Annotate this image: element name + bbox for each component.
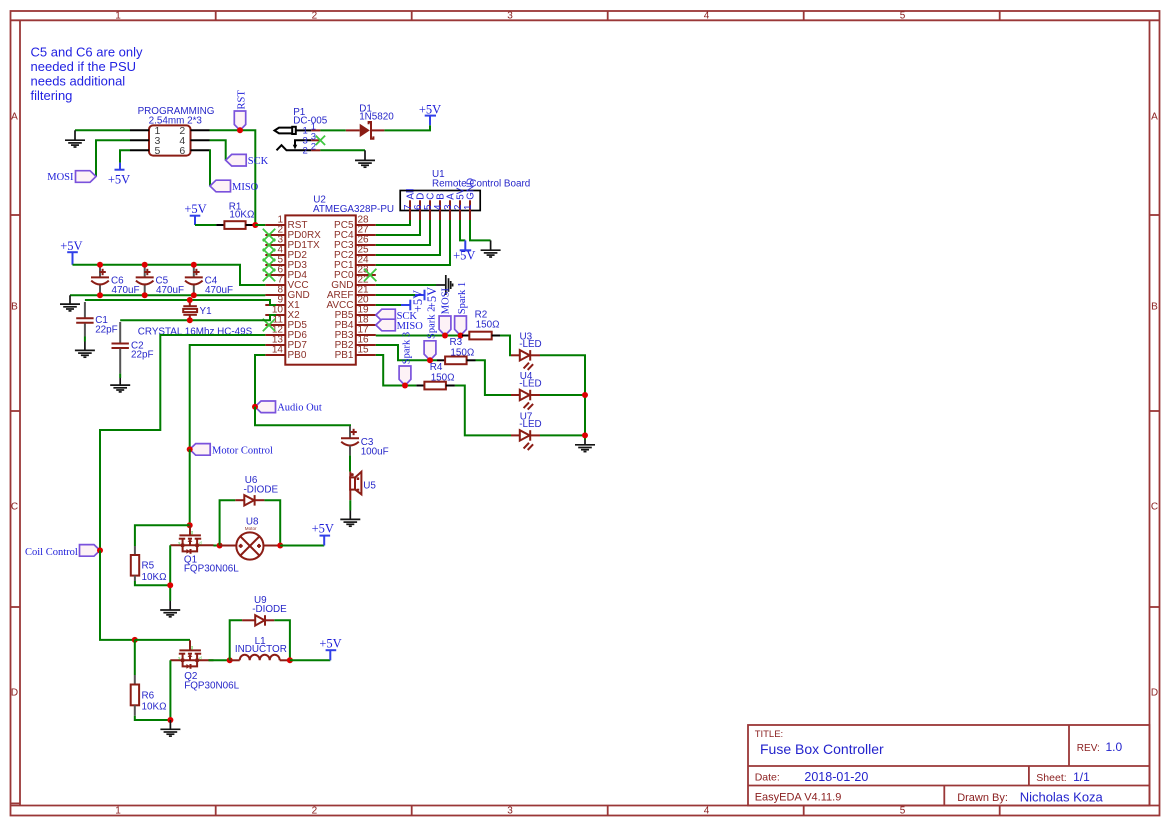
power +5V (header pin5, downward) [108,163,130,187]
svg-text:Remote Control Board: Remote Control Board [432,178,530,189]
wire U1 pin7 to U2 pin28 [376,220,410,225]
junction Coil Control flag [97,547,103,553]
wire P1 pin2 to ground [320,149,365,151]
connector P1 DC-005 barrel jack [275,107,328,157]
motor U8 [220,517,281,560]
svg-text:4: 4 [704,806,710,817]
U1 pin 2 5V [453,187,467,220]
svg-text:22pF: 22pF [95,324,118,335]
svg-text:R6: R6 [142,690,155,701]
transistor Q1 FQP30N06L [170,525,213,554]
pin 3 [311,139,320,141]
pin 3 stub [130,139,149,141]
pin 5 stub [130,149,149,151]
speaker U5 [350,472,376,501]
net flag MOSI (Spark1 row, downward) [439,287,452,335]
crystal Y1 [183,300,212,320]
net flag SCK (header) [226,154,269,167]
wire U2 pin22 GND [376,284,436,286]
wire R6-junction to Q2 gate [135,639,190,641]
wire Q1 gate node to R5 [135,525,190,546]
svg-text:470uF: 470uF [205,285,233,296]
svg-text:RST: RST [236,90,247,110]
wire C2 to ground [119,374,121,378]
U2 pin 23 PC0 [334,265,376,282]
U2 pin 21 AREF [327,285,376,302]
title block [748,725,1150,806]
svg-text:+5V: +5V [411,290,425,312]
wire C1 to ground [84,337,86,342]
svg-text:5: 5 [900,806,906,817]
svg-text:150Ω: 150Ω [476,320,500,331]
svg-text:MOSI: MOSI [47,172,74,183]
svg-text:3: 3 [507,11,513,22]
U2 pin 26 PC3 [334,235,376,252]
svg-text:TITLE:: TITLE: [755,729,784,740]
junction U6/motor left [217,543,223,549]
power +5V (after D1) [419,102,441,125]
capacitor C2 22pF [112,322,154,374]
junction L1 right [287,657,293,663]
junction R6 top [132,637,138,643]
no-connect X U2 left pin at y255 [263,249,275,261]
U2 pin 27 PC4 [334,225,376,242]
svg-text:FQP30N06L: FQP30N06L [184,681,239,692]
power +5V (AVCC, rotated right) [401,290,425,312]
junction C5 bottom [142,292,148,298]
svg-text:needed if the PSU: needed if the PSU [31,59,137,74]
U1 pin 3 A [443,193,457,220]
connector PROGRAMMING header 2.54mm 2*3 [130,106,214,157]
wire R6 bottom to source node [135,716,171,720]
wire GND rail to U2 pin8 [70,294,265,296]
svg-text:Audio Out: Audio Out [277,403,322,414]
svg-text:MISO: MISO [232,182,259,193]
svg-text:1: 1 [463,205,474,210]
svg-text:Sheet:: Sheet: [1036,772,1066,784]
svg-text:C: C [11,502,18,513]
power +5V (R1 pull-up) [184,202,206,225]
U2 pin 28 PC5 [334,215,376,232]
wire U9 left leg [230,620,242,660]
svg-text:+5V: +5V [319,636,341,650]
LED U7 [511,411,542,450]
svg-text:D: D [1151,688,1158,699]
resistor R4 150ohm [416,362,455,389]
inductor L1 [230,636,290,660]
wire P1 pin1 to D1 [320,129,345,131]
wire D1 to +5V [384,125,430,130]
U2 pin 6 PD4 [265,265,307,282]
diode U9 (flyback) [242,595,287,626]
junction Q1 gate node [187,522,193,528]
ground (C1) [75,342,95,358]
transistor Q2 FQP30N06L [170,640,213,669]
svg-text:FQP30N06L: FQP30N06L [184,564,239,575]
svg-text:A: A [11,112,18,123]
net flag Motor Control [190,444,273,457]
svg-text:14: 14 [272,345,284,356]
wire L1 to +5V [290,659,330,661]
diode U6 (flyback) [235,475,278,505]
wire header pin6 to MISO flag [209,150,212,186]
pin 2 [311,149,320,151]
svg-text:1N5820: 1N5820 [359,112,394,123]
svg-text:MOSI: MOSI [441,287,452,314]
junction Spark 2 flag [427,357,433,363]
svg-text:1: 1 [115,806,121,817]
svg-text:Spark 2: Spark 2 [426,307,437,339]
power +5V (AREF, rotated right) [415,287,439,309]
no-connect X U2 left pin at y265 [263,259,275,271]
net flag MISO (header) [210,180,259,193]
svg-text:2: 2 [303,146,308,157]
wire +5V to R1 [195,224,216,226]
svg-text:Motor: Motor [245,526,257,531]
U2 pin 5 PD3 [265,255,307,272]
svg-text:-LED: -LED [519,339,542,350]
wire U1 pin2 to +5V [460,220,465,240]
junction Spark 1 flag [458,333,464,339]
wire U1 pin1 to ground [470,220,491,240]
svg-text:10KΩ: 10KΩ [142,572,167,583]
ground (U2 pin22, rotated right) [436,275,453,295]
U2 pin 15 PB1 [335,345,376,362]
svg-text:s: s [178,540,180,545]
U2 pin 13 PD7 [265,335,307,352]
junction C4 bottom [191,292,197,298]
U1 pin 1 GND [463,178,477,220]
junction Spark 3 flag [402,383,408,389]
wire U6 left leg [220,500,236,545]
pin 4 stub [191,139,210,141]
wire R4 to U7 [455,386,511,436]
svg-text:2: 2 [312,11,318,22]
resistor R3 150ohm [437,337,476,364]
wire U1 pin4 to U2 pin25 [376,220,440,255]
U2 pin 17 PB3 [335,325,376,342]
wire R5 bottom to source node [135,581,170,585]
svg-text:2018-01-20: 2018-01-20 [804,770,868,784]
net flag Spark 2 (downward) [424,307,437,361]
U2 pin 19 PB5 [335,305,376,322]
svg-text:GND: GND [465,178,476,200]
no-connect X U2 left pin at y275 [263,269,275,281]
junction Y1 top [187,297,193,303]
wire X1 net (crystal to U2 pin9 and C1) [85,300,276,305]
capacitor C6 470uF [91,265,140,296]
svg-text:2: 2 [311,142,316,153]
power +5V (L1) [319,636,341,660]
net flag SCK (U2 pin19) [376,309,418,322]
U2 pin 3 PD1TX [265,235,320,252]
svg-text:3: 3 [507,806,513,817]
svg-text:SCK: SCK [248,156,269,167]
ground (U5) [340,511,360,527]
svg-text:Coil Control: Coil Control [25,547,78,558]
U2 pin 16 PB2 [335,335,376,352]
svg-text:+5V: +5V [108,172,130,186]
junction U4 cathode [582,392,588,398]
wire Q2 source down [169,660,171,720]
connector U1 Remote Control Board [400,169,530,211]
junction U7 cathode [582,432,588,438]
wire header pin4 to SCK flag [210,140,226,160]
wire header pin3 to MOSI flag [96,140,130,176]
junction RST flag [237,127,243,133]
svg-text:10KΩ: 10KΩ [142,701,167,712]
U2 pin 14 PB0 [265,345,307,362]
svg-text:Nicholas Koza: Nicholas Koza [1020,789,1104,804]
no-connect X U2 pin23 PC0 [364,269,376,281]
svg-text:REV:: REV: [1077,743,1100,754]
svg-text:4: 4 [704,11,710,22]
junction C6 bottom [97,292,103,298]
svg-text:-LED: -LED [519,379,542,390]
wire U2 pin15 PB1 to R4 [376,355,417,386]
svg-text:-DIODE: -DIODE [244,484,279,495]
svg-text:CRYSTAL 16Mhz HC-49S: CRYSTAL 16Mhz HC-49S [138,327,253,338]
no-connect X U2 left pin at y325 [263,319,275,331]
wire Q2 drain to L1 node [209,659,230,661]
junction Y1 bottom [187,317,193,323]
wire U2 pin20 AVCC to +5V [376,304,401,306]
junction R1 / RST / pin1 [252,222,258,228]
capacitor C5 470uF [136,265,184,296]
junction R6/Q2 source [167,717,173,723]
ground (P1 pin2) [355,150,375,167]
svg-text:+5V: +5V [184,202,206,216]
wire U2 pin14 PB0 / Audio Out net [255,355,265,407]
ground (LED rail) [575,440,595,452]
resistor R5 10KQ [131,546,167,583]
wire Coil Control net (lower run to R6 and Q2 gate) [100,550,135,640]
LED U4 [511,371,542,410]
svg-text:B: B [11,302,18,313]
svg-text:-LED: -LED [519,419,542,430]
pin numbers [154,125,185,157]
wire U2 pin21 AREF to +5V [376,294,415,296]
svg-text:+5V: +5V [453,249,475,263]
U2 pin 7 VCC [265,275,308,292]
svg-text:R5: R5 [142,561,155,572]
svg-text:+5V: +5V [425,287,439,309]
wire motor to +5V [280,545,324,547]
svg-text:+5V: +5V [60,239,82,253]
wire U1 pin5 to U2 pin26 [376,220,430,245]
pin 1 stub [130,129,149,131]
svg-text:B: B [1151,302,1158,313]
net flag Spark 1 (downward) [455,282,468,336]
svg-text:10KΩ: 10KΩ [229,210,254,221]
net flag Spark 3 (downward) [399,332,412,386]
U1 pin 5 C [423,193,437,220]
junction R5/source [167,582,173,588]
note text [31,45,144,104]
U2 pin 9 X1 [265,295,300,312]
svg-text:5: 5 [154,145,160,157]
svg-text:-DIODE: -DIODE [252,604,287,615]
U2 pin 10 X2 [265,305,300,322]
U1 pin 7 All [403,189,417,220]
svg-text:Drawn By:: Drawn By: [957,792,1008,804]
resistor R6 10KQ [131,640,167,716]
svg-text:Spark 3: Spark 3 [401,332,412,364]
svg-text:470uF: 470uF [112,285,140,296]
ground (C2) [110,378,130,392]
ground (header pin1) [65,130,85,147]
U1 pin 6 D [413,193,427,220]
wire U1 pin3 to U2 pin24 [376,220,450,265]
capacitor C4 470uF [185,265,233,296]
wire R2 to U3 [500,336,511,356]
svg-text:1.0: 1.0 [1106,740,1123,754]
wire C3 to U5 [349,455,351,471]
U2 pin 12 PD6 [265,325,307,342]
wire R1 to U2 pin1 [255,224,265,226]
wire U2 pin17 PB3 to R2 [376,335,462,337]
LED U3 [511,331,542,370]
no-connect X on P1 pin3 [316,136,325,145]
diode D1 1N5820 (schottky) [346,103,394,138]
wire U6 right leg [264,500,280,545]
wire U3 cathode to ground rail [540,355,585,440]
svg-text:100uF: 100uF [361,446,389,457]
U2 pin 4 PD2 [265,245,307,262]
svg-text:1: 1 [115,11,121,22]
wire U2 pin12 PD6 / Coil Control net (upper run) [100,335,265,550]
svg-text:U5: U5 [363,481,376,492]
wire Q1 drain to motor node [214,545,220,547]
svg-text:15: 15 [358,345,370,356]
wire U5 to ground [349,500,351,510]
ground (U1 pin1) [481,240,501,257]
wire R3 to U4 [476,360,512,395]
junction C4 top [191,262,197,268]
pin 1 [311,129,320,131]
svg-text:ATMEGA328P-PU: ATMEGA328P-PU [313,204,394,215]
net flag MOSI [47,171,96,184]
power +5V (motor) [312,522,334,546]
U2 pin 25 PC2 [334,245,376,262]
svg-text:150Ω: 150Ω [431,372,455,383]
wire U2 pin16 PB2 to R3 [376,345,437,360]
svg-text:EasyEDA V4.11.9: EasyEDA V4.11.9 [755,792,842,804]
ground (Q1 source) [160,601,180,617]
svg-text:+5V: +5V [419,102,441,116]
U2 pin 22 GND [331,275,376,292]
junction Audio Out flag [252,404,258,410]
junction Motor Control flag [187,446,193,452]
net flag RST [234,90,247,131]
power +5V (decoupling rail) [60,239,82,265]
svg-text:C5 and C6 are only: C5 and C6 are only [31,45,144,60]
pin 6 stub [191,149,210,151]
svg-text:INDUCTOR: INDUCTOR [235,644,287,655]
wire U2 pin13 PD7 / Motor Control net [190,345,266,449]
wire U1 pin6 to U2 pin27 [376,220,420,235]
power +5V (U1 pin2, downward) [453,240,475,262]
svg-text:MISO: MISO [397,321,424,332]
svg-text:PB0: PB0 [288,350,307,361]
svg-text:Y1: Y1 [200,306,213,317]
U2 pin 8 GND [265,285,309,302]
svg-text:+5V: +5V [312,522,334,536]
svg-text:470uF: 470uF [156,285,184,296]
svg-text:150Ω: 150Ω [450,347,474,358]
U2 pin 2 PD0RX [265,225,321,242]
junction U9/L1 left [227,657,233,663]
no-connect X U2 left pin at y235 [263,229,275,241]
svg-text:PB1: PB1 [335,350,354,361]
capacitor C1 22pF [76,302,118,337]
wire U9 right leg [274,620,290,660]
svg-text:2: 2 [312,806,318,817]
ground (Q2 source) [160,720,180,736]
wire header pin5 to +5V [120,150,130,163]
wire Motor Control net to Q1 gate [189,449,191,525]
wire X2 net (crystal to U2 pin10 and C2) [120,315,276,320]
junction C5 top [142,262,148,268]
U2 pin 1 RST [265,215,307,232]
resistor R1 10KQ [216,201,255,229]
svg-text:s: s [178,655,180,660]
svg-text:22pF: 22pF [131,350,154,361]
wire header pin2 / RST net [210,130,256,225]
U1 pin 4 B [433,193,447,220]
svg-text:6: 6 [179,145,185,157]
resistor R2 150ohm [462,309,500,339]
svg-text:Spark 1: Spark 1 [457,282,468,314]
junction C6 top [97,262,103,268]
svg-text:Motor Control: Motor Control [212,445,273,456]
svg-text:C: C [1151,502,1158,513]
junction motor right [277,543,283,549]
capacitor C3 100uF [341,426,389,457]
no-connect X U2 left pin at y245 [263,239,275,251]
svg-text:A: A [1151,112,1158,123]
svg-text:5: 5 [900,11,906,22]
wire Q1 source down to ground [169,545,171,601]
wire U4 cathode to ground rail [540,394,585,396]
pin 2 stub [191,129,210,131]
net flag Coil Control [25,545,100,559]
wire +5V rail to U2 VCC pin7 [73,265,266,285]
svg-text:needs additional: needs additional [31,74,126,89]
ground (decoupling rail) [60,295,80,311]
wire U7 cathode to ground rail [540,434,585,436]
net flag Audio Out [255,401,322,414]
junction MOSI flag [442,333,448,339]
IC U2 ATMEGA328P-PU [285,195,394,365]
wire header pin1 to ground [75,129,130,131]
wire Audio Out net to C3 [255,407,350,427]
svg-text:1/1: 1/1 [1073,770,1090,784]
svg-text:Fuse Box Controller: Fuse Box Controller [760,741,884,757]
svg-text:D: D [11,688,18,699]
U2 pin 24 PC1 [334,255,376,272]
U2 pin 18 PB4 [335,315,376,332]
U2 pin 20 AVCC [326,295,375,312]
svg-text:Date:: Date: [755,772,780,784]
svg-text:filtering: filtering [31,88,73,103]
net flag MISO (U2 pin18) [376,319,423,332]
U2 pin 11 PD5 [265,315,307,332]
